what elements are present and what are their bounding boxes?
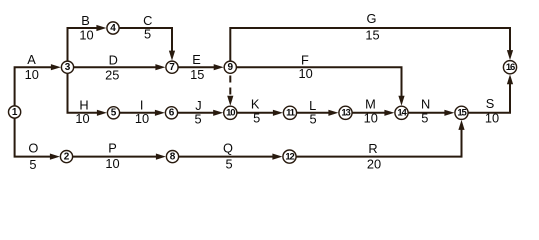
svg-text:7: 7 xyxy=(169,62,175,73)
svg-text:9: 9 xyxy=(228,62,234,73)
svg-text:10: 10 xyxy=(135,111,149,126)
svg-text:5: 5 xyxy=(310,112,317,127)
svg-text:16: 16 xyxy=(506,62,515,73)
svg-text:R: R xyxy=(368,141,377,156)
svg-text:10: 10 xyxy=(25,67,39,82)
svg-text:20: 20 xyxy=(367,156,381,171)
svg-text:O: O xyxy=(28,141,38,156)
svg-text:Q: Q xyxy=(223,140,233,155)
svg-text:F: F xyxy=(301,52,309,67)
svg-text:8: 8 xyxy=(170,152,176,163)
svg-text:S: S xyxy=(486,96,495,111)
svg-text:4: 4 xyxy=(110,23,116,34)
svg-text:5: 5 xyxy=(111,108,117,119)
svg-text:10: 10 xyxy=(79,27,93,42)
svg-text:B: B xyxy=(81,13,90,28)
svg-text:2: 2 xyxy=(64,152,70,163)
svg-text:5: 5 xyxy=(421,110,428,125)
svg-text:L: L xyxy=(309,98,316,113)
svg-text:10: 10 xyxy=(75,111,89,126)
svg-text:10: 10 xyxy=(105,156,119,171)
svg-text:5: 5 xyxy=(194,112,201,127)
svg-text:1: 1 xyxy=(12,107,18,118)
svg-text:K: K xyxy=(251,97,260,112)
svg-text:5: 5 xyxy=(144,27,151,42)
svg-text:5: 5 xyxy=(253,111,260,126)
svg-text:J: J xyxy=(195,98,201,113)
svg-text:15: 15 xyxy=(190,67,204,82)
svg-text:3: 3 xyxy=(65,62,71,73)
svg-text:G: G xyxy=(367,11,377,26)
svg-text:10: 10 xyxy=(298,66,312,81)
svg-text:12: 12 xyxy=(285,152,294,163)
svg-text:25: 25 xyxy=(105,68,119,83)
svg-text:E: E xyxy=(192,52,201,67)
svg-text:10: 10 xyxy=(364,110,378,125)
svg-text:A: A xyxy=(27,52,36,67)
svg-text:P: P xyxy=(108,140,117,155)
svg-text:10: 10 xyxy=(485,111,499,126)
svg-text:13: 13 xyxy=(341,108,350,119)
svg-text:5: 5 xyxy=(29,157,36,172)
svg-text:10: 10 xyxy=(226,108,235,119)
svg-text:15: 15 xyxy=(365,27,379,42)
svg-text:D: D xyxy=(109,53,118,68)
svg-text:6: 6 xyxy=(169,108,175,119)
svg-text:5: 5 xyxy=(225,157,232,172)
